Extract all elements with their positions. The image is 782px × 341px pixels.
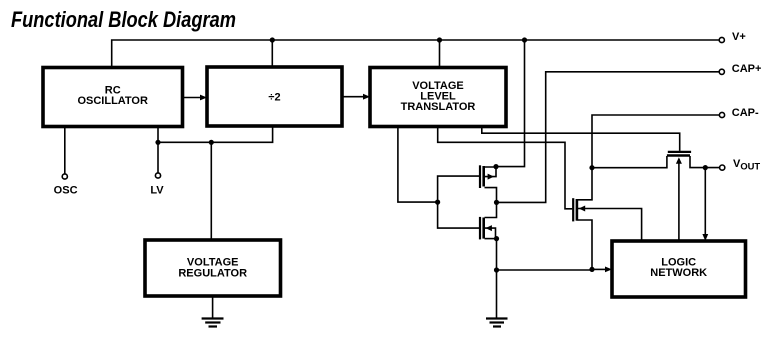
transistor M3 NMOS (right, to logic network) <box>573 198 641 241</box>
transistor M4 NMOS (output, horizontal) <box>667 152 691 241</box>
svg-text:VOUT: VOUT <box>733 158 760 172</box>
svg-text:CAP+: CAP+ <box>732 63 762 75</box>
svg-text:Functional Block Diagram: Functional Block Diagram <box>11 7 236 32</box>
wire translator top drop <box>439 40 441 68</box>
wire NMOS source to ground <box>496 239 498 318</box>
node VOUT junction <box>703 165 708 170</box>
wire regulator top drop <box>210 142 212 240</box>
wire M3 source to logic node <box>578 220 593 269</box>
wire LV <box>157 127 159 174</box>
block divide by 2 <box>207 67 342 126</box>
svg-text:÷2: ÷2 <box>268 91 280 103</box>
node CAP- junction <box>589 165 594 170</box>
terminal CAP+ <box>719 69 724 74</box>
ground symbol under NMOS M2 <box>486 319 508 327</box>
svg-text:NETWORK: NETWORK <box>650 267 707 279</box>
block voltage level translator <box>370 68 506 127</box>
block voltage regulator <box>145 240 281 296</box>
wire regulator to ground <box>212 296 214 318</box>
wire CMOS gate tie <box>438 176 479 228</box>
terminal CAP- <box>719 112 724 117</box>
terminal OSC <box>62 174 67 179</box>
svg-text:CAP-: CAP- <box>732 107 759 119</box>
node translator top on rail <box>437 37 442 42</box>
wire OSC <box>64 127 66 175</box>
transistor M1 PMOS (top of middle pair) <box>480 165 497 202</box>
node PMOS source V+ <box>493 164 498 169</box>
arrow into logic network left <box>592 267 612 273</box>
block RC oscillator <box>43 68 183 127</box>
wire V+ drop to PMOS source node <box>496 40 525 167</box>
terminal VOUT <box>720 165 725 170</box>
node divider top on rail <box>270 37 275 42</box>
arrow divider to translator <box>342 94 370 100</box>
svg-text:TRANSLATOR: TRANSLATOR <box>401 101 476 113</box>
wire translator drop to M3 gate <box>438 127 573 209</box>
node logic network input <box>589 267 594 272</box>
ground symbol under voltage regulator <box>202 319 224 327</box>
wire M3 drain to CAP- node <box>578 168 593 200</box>
arrow VOUT node down into logic network <box>702 168 708 241</box>
node regulator drop junction <box>209 140 214 145</box>
node LV line junction <box>155 140 160 145</box>
node CMOS drains CAP+ <box>494 200 499 205</box>
wire V+ top rail <box>112 40 720 68</box>
wire divide-by-2 bottom to LV line <box>158 127 273 143</box>
wire divide-by-2 top drop <box>271 40 273 67</box>
wire translator drop to CMOS gates <box>398 127 438 203</box>
wire translator drop to M4 gate <box>482 127 680 151</box>
wire ground node to logic network node <box>497 269 593 271</box>
svg-text:REGULATOR: REGULATOR <box>178 267 247 279</box>
block logic network <box>612 241 746 297</box>
svg-text:V+: V+ <box>732 31 746 43</box>
svg-text:OSCILLATOR: OSCILLATOR <box>77 95 148 107</box>
svg-text:LV: LV <box>150 185 164 197</box>
wire CAP+ <box>497 72 720 203</box>
wire M4 right lead to VOUT <box>690 156 720 168</box>
wire CAP- <box>592 115 719 168</box>
svg-text:OSC: OSC <box>54 185 78 197</box>
wire CAP- node to M4 left lead <box>592 156 667 168</box>
terminal V+ <box>719 37 724 42</box>
node CMOS gate input <box>435 200 440 205</box>
terminal LV <box>155 173 160 178</box>
transistor M2 NMOS (bottom of middle pair) <box>480 202 497 239</box>
arrow oscillator to divider <box>183 95 208 101</box>
node V+ drop on rail <box>522 37 527 42</box>
node NMOS source body <box>494 236 499 241</box>
node ground branch <box>494 267 499 272</box>
